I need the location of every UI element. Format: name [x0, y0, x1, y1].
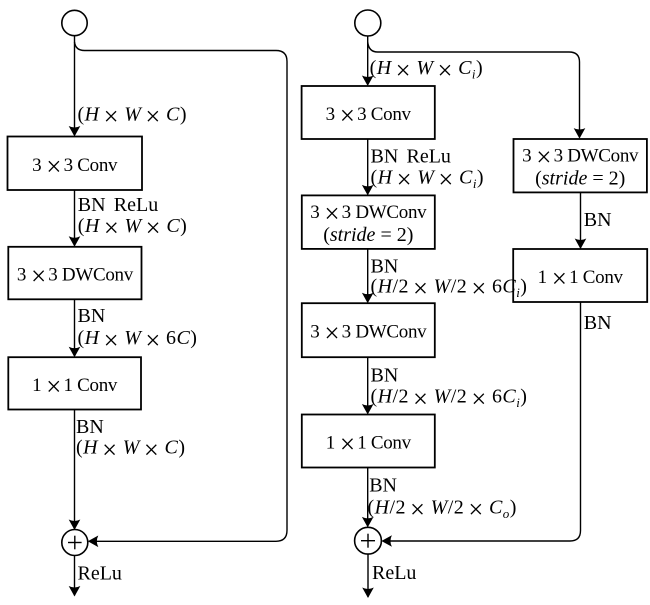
svg-text:(stride = 2): (stride = 2) [535, 168, 625, 190]
svg-text:BN: BN [584, 312, 612, 334]
svg-text:ReLu: ReLu [78, 563, 122, 585]
svg-text:BN: BN [371, 365, 399, 387]
svg-text:BN: BN [371, 256, 399, 278]
svg-text:ReLu: ReLu [372, 562, 416, 584]
svg-text:BN: BN [369, 475, 397, 497]
svg-text:BN: BN [78, 305, 106, 327]
svg-text:(stride = 2): (stride = 2) [323, 224, 413, 246]
svg-text:BN: BN [584, 209, 612, 231]
